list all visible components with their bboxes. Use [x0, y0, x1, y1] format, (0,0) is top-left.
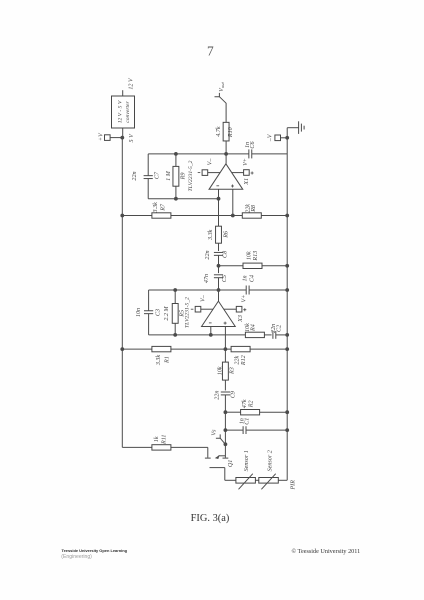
- wire R7 rail: [122, 215, 242, 217]
- junction R2 right rail: [285, 410, 289, 414]
- resistor R1: [152, 346, 171, 351]
- junction R5 top: [173, 288, 177, 292]
- terminal tick Vs: [216, 434, 220, 438]
- pin plus sign X1 V+: [251, 172, 254, 175]
- wire R2 to right rail: [260, 411, 288, 413]
- junction C1 branch: [224, 428, 228, 432]
- svg-text:R10: R10: [228, 127, 234, 138]
- junction X3 plus on R1 rail: [224, 347, 228, 351]
- svg-text:V+: V+: [243, 158, 249, 166]
- svg-text:+V: +V: [98, 132, 104, 141]
- svg-text:R6: R6: [223, 230, 229, 239]
- junction R12 right rail: [285, 347, 289, 351]
- wire minus node to R4: [211, 334, 246, 336]
- svg-text:3.3k: 3.3k: [208, 229, 214, 241]
- svg-text:C3: C3: [155, 309, 161, 316]
- svg-text:Sensor 2: Sensor 2: [267, 450, 273, 471]
- svg-text:47k: 47k: [242, 399, 248, 408]
- junction C1 right rail: [285, 428, 289, 432]
- wire -V to right rail: [281, 137, 288, 139]
- svg-text:C2: C2: [277, 325, 283, 332]
- svg-text:22n: 22n: [205, 250, 211, 259]
- svg-text:–V: –V: [268, 133, 274, 142]
- svg-text:R8: R8: [251, 205, 257, 213]
- junction loop to X1 minus wire: [217, 197, 221, 201]
- svg-text:22n: 22n: [132, 171, 138, 180]
- wire V_out to R10: [225, 103, 227, 123]
- resistor R8: [242, 213, 261, 218]
- svg-text:4.7k: 4.7k: [216, 126, 222, 137]
- svg-text:22k: 22k: [234, 356, 240, 365]
- wire left rail to R11: [122, 446, 152, 448]
- wire C7 to bottom rail: [147, 179, 149, 199]
- wire C4 to right rail: [249, 289, 287, 291]
- svg-text:V+: V+: [242, 295, 248, 303]
- svg-text:converter: converter: [125, 100, 131, 122]
- wire converter to 5V node: [122, 128, 124, 138]
- svg-text:R9: R9: [181, 173, 187, 181]
- wire V- to X3: [201, 308, 213, 310]
- svg-text:C4: C4: [249, 275, 255, 282]
- wire R12 to right rail: [250, 348, 288, 350]
- wire to R6: [218, 199, 220, 227]
- ground: [299, 121, 305, 134]
- junction Vs drain node: [224, 442, 228, 446]
- junction C2 right rail: [285, 333, 289, 337]
- junction R8 right rail: [285, 214, 289, 218]
- pin minus sign X3 V-: [191, 308, 194, 310]
- svg-text:Vs: Vs: [212, 429, 218, 436]
- wire to R5 top: [174, 290, 176, 304]
- wire 12V stub: [122, 90, 124, 96]
- wire C8 to R13 node: [218, 255, 220, 265]
- resistor R10: [223, 122, 229, 141]
- resistor R11: [152, 445, 171, 450]
- capacitor C7: [144, 176, 153, 179]
- junction left rail R1: [120, 347, 124, 351]
- svg-text:22n: 22n: [215, 391, 221, 400]
- resistor R9: [173, 166, 179, 186]
- capacitor C4: [246, 286, 249, 295]
- svg-text:R3: R3: [230, 367, 236, 375]
- svg-text:X3: X3: [238, 315, 244, 323]
- junction R13 right rail: [285, 264, 289, 268]
- wire X1 loop top rail: [148, 153, 249, 155]
- wire R6 to C8: [218, 243, 220, 251]
- svg-text:10n: 10n: [136, 308, 142, 317]
- svg-text:Q1: Q1: [228, 460, 234, 467]
- pin plus input mark X3: [224, 322, 227, 325]
- wire X3 loop bottom rail: [149, 334, 211, 336]
- svg-text:TLV2231-5_2: TLV2231-5_2: [184, 297, 190, 328]
- op-amp X3: [202, 301, 236, 326]
- svg-text:R1: R1: [164, 356, 170, 364]
- svg-text:12 V - 5 V: 12 V - 5 V: [117, 100, 123, 123]
- wire V+ to X1: [232, 172, 244, 174]
- wire V+ to X3: [224, 308, 237, 310]
- terminal square V+ X3: [236, 306, 242, 312]
- svg-text:C6: C6: [250, 140, 256, 148]
- svg-text:X1: X1: [244, 178, 250, 186]
- junction X1 plus on R7 rail: [231, 214, 235, 218]
- svg-text:2.2 M: 2.2 M: [164, 305, 170, 320]
- resistor R3: [222, 362, 228, 380]
- wire to C5: [218, 266, 220, 273]
- junction R9 bottom: [174, 197, 178, 201]
- capacitor C8: [214, 252, 223, 255]
- terminal tick V_out: [215, 93, 220, 97]
- resistor R6: [216, 226, 222, 243]
- capacitor C3: [144, 311, 153, 314]
- wire +V to rail: [110, 137, 122, 139]
- svg-text:Vout: Vout: [219, 81, 225, 91]
- sensor 2 (variable resistor): [259, 474, 279, 490]
- capacitor C1: [243, 426, 246, 434]
- wire R4 to C2: [264, 334, 271, 336]
- wire Sensor2 to right rail: [278, 479, 287, 481]
- wire C1 to right rail: [246, 429, 287, 431]
- svg-text:7: 7: [207, 44, 214, 59]
- svg-text:1 M: 1 M: [166, 170, 172, 181]
- wire V- to X1: [208, 172, 220, 174]
- wire X1 loop bottom rail: [148, 198, 218, 200]
- capacitor C2: [273, 331, 276, 339]
- terminal square V- X3: [195, 306, 201, 312]
- svg-text:C1: C1: [244, 418, 250, 425]
- wire Vs diagonal: [220, 438, 225, 444]
- wire C6 to right rail: [252, 153, 287, 155]
- wire C2 to right rail: [276, 334, 287, 336]
- wire C5 to top rail 1: [218, 278, 220, 290]
- wire V_out diagonal: [219, 97, 226, 104]
- svg-text:R11: R11: [161, 435, 167, 445]
- svg-text:(Engineering): (Engineering): [61, 554, 92, 560]
- svg-text:47n: 47n: [204, 274, 210, 283]
- wire to ground: [287, 127, 298, 129]
- wire C9 down to Q1 drain node: [224, 395, 226, 444]
- junction X3 minus node: [209, 333, 213, 337]
- svg-text:R7: R7: [160, 203, 166, 212]
- junction +V rail: [120, 136, 124, 140]
- transistor Q1: [205, 444, 228, 480]
- wire right rail: [286, 128, 288, 481]
- op-amp X1: [209, 164, 243, 190]
- pin minus input mark X1: [216, 185, 219, 187]
- junction R2 branch: [224, 410, 228, 414]
- pin plus sign X3 V+: [243, 308, 246, 311]
- svg-text:12 V: 12 V: [128, 77, 134, 90]
- wire source to Sensor1: [225, 479, 236, 481]
- svg-text:R13: R13: [253, 251, 259, 262]
- svg-text:1n: 1n: [242, 275, 248, 281]
- wire R1 rail: [122, 348, 231, 350]
- wire top rail to C7: [147, 154, 149, 176]
- terminal square V+ X1: [244, 170, 250, 176]
- wire R13 to right rail: [262, 265, 287, 267]
- svg-text:C5: C5: [222, 275, 228, 282]
- terminal square -V: [275, 135, 281, 141]
- wire X1 plus input: [232, 189, 234, 215]
- svg-text:TLV2231-5_2: TLV2231-5_2: [188, 160, 194, 191]
- 12V-5V converter U2: [112, 96, 135, 128]
- wire apex X3: [218, 290, 220, 301]
- svg-text:10k: 10k: [246, 251, 252, 260]
- pin minus input mark X3: [209, 322, 212, 324]
- wire C3 to bottom rail: [148, 314, 150, 335]
- junction left rail R7: [120, 214, 124, 218]
- svg-text:V–: V–: [201, 294, 207, 302]
- wire X3 plus input: [224, 327, 226, 350]
- resistor R13: [243, 263, 262, 268]
- junction C4 right rail: [285, 288, 289, 292]
- junction X3 apex node: [217, 288, 221, 292]
- wire X1 minus input: [218, 189, 220, 198]
- wire Sensor1 to Sensor2: [255, 479, 258, 481]
- capacitor C9: [221, 392, 230, 395]
- wire R3 to C9: [224, 380, 226, 390]
- resistor R7: [152, 213, 171, 218]
- svg-text:V–: V–: [208, 158, 214, 166]
- wire left supply rail: [121, 138, 123, 448]
- wire R9 to bottom rail: [175, 186, 177, 199]
- wire R11 to gate: [171, 446, 208, 448]
- svg-text:3.3k: 3.3k: [156, 355, 162, 367]
- svg-text:5 V: 5 V: [129, 133, 135, 143]
- svg-text:© Teesside University 2011: © Teesside University 2011: [292, 548, 361, 555]
- svg-text:R4: R4: [251, 324, 257, 332]
- svg-text:R2: R2: [249, 400, 255, 408]
- junction -V right rail: [285, 136, 289, 140]
- wire R10 to node: [225, 141, 227, 154]
- resistor R5: [172, 304, 178, 324]
- junction R9 top: [174, 152, 178, 156]
- svg-text:1k: 1k: [154, 436, 160, 442]
- capacitor C6: [249, 149, 252, 158]
- resistor R12: [231, 346, 250, 351]
- wire R8 to right rail: [261, 215, 287, 217]
- pin minus sign X1 V-: [198, 172, 201, 174]
- svg-text:FIG. 3(a): FIG. 3(a): [191, 513, 230, 524]
- capacitor C5: [214, 275, 223, 278]
- wire to R2: [225, 411, 240, 413]
- svg-text:Sensor 1: Sensor 1: [244, 450, 250, 471]
- wire apex X1: [225, 154, 227, 164]
- wire to R3: [224, 349, 226, 362]
- svg-text:C9: C9: [230, 391, 236, 398]
- wire to R13: [219, 265, 244, 267]
- resistor R2: [241, 410, 260, 415]
- wire X3 loop top rail: [149, 289, 247, 291]
- sensor 1 (variable resistor): [236, 474, 256, 490]
- svg-text:R12: R12: [241, 355, 247, 366]
- wire to C1: [225, 429, 243, 431]
- wire R5 to bottom rail: [174, 323, 176, 335]
- svg-text:C7: C7: [154, 171, 160, 179]
- junction R10 / X1 apex / top rail: [224, 152, 228, 156]
- svg-text:PIR: PIR: [290, 480, 296, 491]
- terminal square V- X1: [202, 170, 208, 176]
- svg-text:Teesside University Open Learn: Teesside University Open Learning: [62, 548, 128, 553]
- wire X3 minus input: [210, 327, 212, 335]
- svg-text:C8: C8: [222, 251, 228, 258]
- pin plus input mark X1: [231, 185, 234, 188]
- resistor R4: [245, 332, 264, 337]
- wire top rail to C3: [148, 290, 150, 311]
- junction R13 branch: [217, 264, 221, 268]
- wire to R9 top: [175, 154, 177, 167]
- terminal square +V: [105, 135, 111, 141]
- junction R5 bottom: [173, 333, 177, 337]
- svg-text:3.3k: 3.3k: [153, 202, 159, 214]
